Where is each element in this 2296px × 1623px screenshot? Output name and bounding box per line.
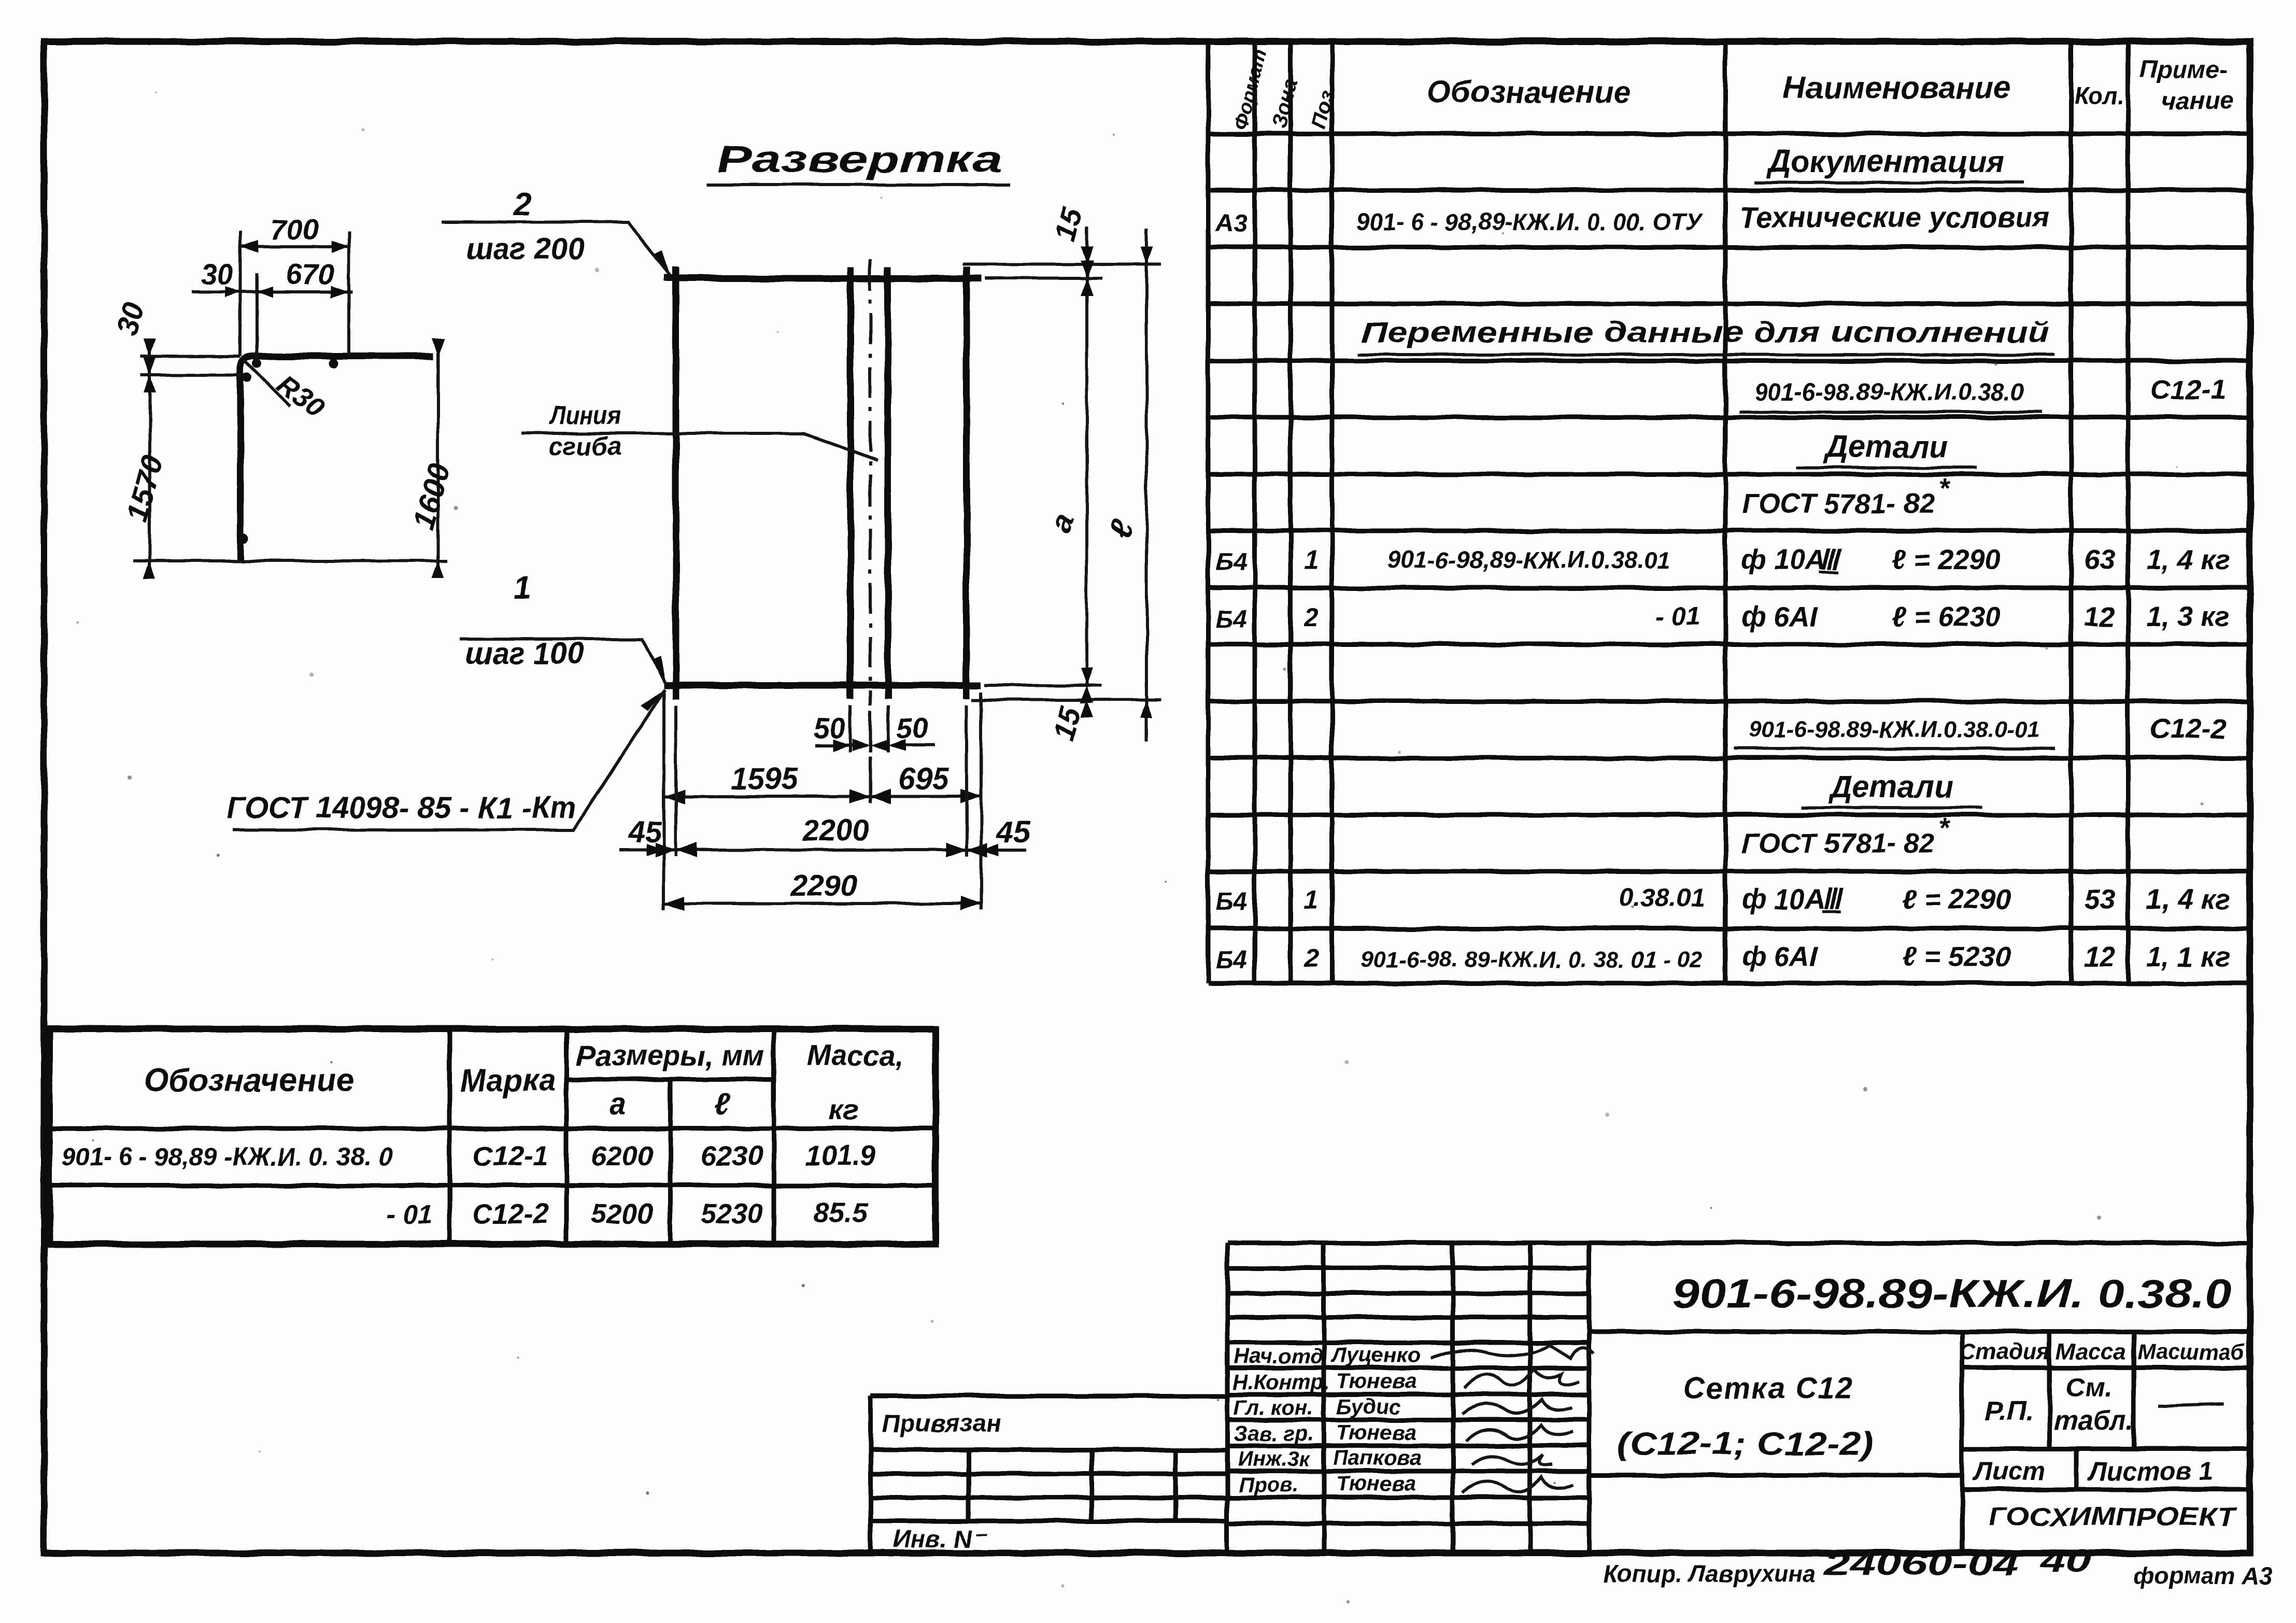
svg-text:- 01: - 01 [1655,602,1700,631]
bottom annotations [1604,1543,2273,1589]
svg-text:Тюнева: Тюнева [1336,1472,1416,1495]
svg-text:Наименование: Наименование [1783,70,2010,105]
svg-text:Копир. Лаврухина: Копир. Лаврухина [1604,1560,1816,1587]
svg-text:1: 1 [1304,885,1319,914]
svg-text:С12-1: С12-1 [2150,374,2226,405]
svg-text:ГОСТ 5781- 82: ГОСТ 5781- 82 [1741,488,1935,519]
svg-text:Б4: Б4 [1216,888,1248,915]
svg-text:Луценко: Луценко [1330,1343,1420,1367]
стадия масса масштаб [1962,1332,2250,1489]
svg-text:901- 6 - 98,89-КЖ.И. 0. 00. ОТ: 901- 6 - 98,89-КЖ.И. 0. 00. ОТУ [1356,208,1704,235]
svg-text:1, 3 кг: 1, 3 кг [2146,601,2230,632]
svg-text:2: 2 [1303,944,1319,973]
svg-text:30: 30 [201,258,233,290]
mesh transverse bar bottom [664,682,981,689]
spec table row texts [1215,144,2230,974]
svg-text:Линия: Линия [548,401,621,430]
main title area [1589,1243,2250,1553]
dim 30 / 670 [256,273,259,363]
svg-text:ф 10А: ф 10А [1741,544,1825,575]
top leg [240,356,433,562]
svg-text:901-6-98. 89-КЖ.И. 0. 38. 01 -: 901-6-98. 89-КЖ.И. 0. 38. 01 - 02 [1360,947,1703,972]
svg-text:Масса: Масса [2056,1339,2126,1364]
svg-text:12: 12 [2084,601,2115,632]
svg-text:формат А3: формат А3 [2134,1562,2273,1589]
svg-text:Пров.: Пров. [1239,1473,1299,1497]
svg-text:Лист: Лист [1973,1457,2045,1486]
development drawing (Развертка) [227,139,1161,911]
svg-text:1595: 1595 [731,762,798,796]
svg-text:ГОСТ 14098- 85 - К1 -Кт: ГОСТ 14098- 85 - К1 -Кт [227,791,577,825]
svg-text:ℓ = 6230: ℓ = 6230 [1892,601,2001,632]
svg-text:40: 40 [2040,1543,2091,1579]
svg-text:2200: 2200 [801,814,869,848]
dim 1600 [436,345,440,570]
label 1 / шаг 100 with leader [460,570,665,683]
svg-text:А3: А3 [1215,210,1248,237]
svg-text:ГОСТ 5781- 82: ГОСТ 5781- 82 [1741,828,1935,859]
signature table [1227,1243,1589,1553]
svg-text:Размеры, мм: Размеры, мм [576,1039,765,1071]
svg-text:2290: 2290 [790,869,857,902]
svg-text:1, 1 кг: 1, 1 кг [2146,941,2230,972]
svg-text:Развертка: Развертка [717,139,1002,180]
label ГОСТ 14098-85-К1-Кт with leader [227,689,665,830]
svg-text:901-6-98.89-КЖ.И.0.38.0-01: 901-6-98.89-КЖ.И.0.38.0-01 [1749,717,2040,742]
svg-text:Масса,: Масса, [806,1039,903,1071]
svg-text:Обозначение: Обозначение [144,1063,354,1098]
svg-text:695: 695 [899,762,949,796]
svg-text:Б4: Б4 [1216,605,1248,633]
material table (bottom left) [49,1029,936,1244]
svg-text:Ⅲ: Ⅲ [1819,544,1841,575]
svg-text:Р.П.: Р.П. [1985,1396,2033,1427]
svg-text:- 01: - 01 [386,1199,433,1230]
svg-text:5200: 5200 [591,1198,653,1230]
svg-text:2: 2 [1303,603,1319,632]
svg-text:Документация: Документация [1766,144,2005,179]
longitudinal wire right [963,267,970,699]
svg-text:Детали: Детали [1827,769,1953,804]
svg-text:Листов 1: Листов 1 [2088,1457,2213,1486]
right side dims 15 / a / e [962,204,1161,744]
label 2 / шаг 200 with leader [441,187,670,276]
svg-text:Инв. N⁻: Инв. N⁻ [892,1526,988,1553]
svg-text:шаг 100: шаг 100 [465,637,584,670]
привязан box + lower table [871,1396,1227,1553]
svg-text:12: 12 [2084,941,2115,972]
svg-text:Обозначение: Обозначение [1427,75,1631,109]
svg-text:ℓ = 2290: ℓ = 2290 [1892,544,2001,575]
dim 45 / 2200 / 45 [619,705,1030,857]
svg-text:Н.Контр.: Н.Контр. [1232,1370,1329,1394]
svg-text:Папкова: Папкова [1333,1446,1421,1470]
svg-text:Технические условия: Технические условия [1739,201,2049,233]
signatures squiggles [1430,1345,1594,1493]
longitudinal wire mid-right of fold [885,267,891,699]
svg-text:1, 4 кг: 1, 4 кг [2146,544,2230,575]
svg-text:901-6-98.89-КЖ.И. 0.38.0: 901-6-98.89-КЖ.И. 0.38.0 [1673,1271,2232,1316]
svg-text:ℓ = 5230: ℓ = 5230 [1902,941,2011,972]
label Линия сгиба with leader [521,401,877,461]
svg-text:ф 6АΙ: ф 6АΙ [1741,941,1818,972]
svg-text:Детали: Детали [1822,429,1948,464]
svg-text:шаг 200: шаг 200 [466,232,585,266]
svg-text:45: 45 [996,815,1030,849]
svg-text:670: 670 [286,258,334,290]
svg-text:700: 700 [270,213,318,246]
R30 leader [245,360,290,406]
svg-text:24060-04: 24060-04 [1824,1546,2019,1582]
svg-text:63: 63 [2084,544,2115,575]
longitudinal wire left [673,267,679,699]
svg-text:1: 1 [514,570,531,606]
svg-text:Б4: Б4 [1216,548,1248,576]
svg-text:6200: 6200 [591,1140,653,1172]
spec table grid [1208,43,2250,983]
svg-text:5230: 5230 [701,1198,763,1230]
longitudinal wire mid-left of fold [847,267,854,699]
spec table header texts [1230,47,2234,132]
svg-text:ГОСХИМПРОЕКТ: ГОСХИМПРОЕКТ [1989,1502,2237,1531]
svg-text:Стадия: Стадия [1959,1339,2050,1364]
svg-text:Тюнева: Тюнева [1336,1369,1416,1393]
svg-text:Б4: Б4 [1216,947,1248,974]
fold line (dash-dot) [869,259,872,705]
svg-text:901- 6 - 98,89 -КЖ.И. 0. 38. 0: 901- 6 - 98,89 -КЖ.И. 0. 38. 0 [62,1144,392,1171]
svg-text:табл.: табл. [2054,1406,2133,1436]
svg-text:Инж.3к: Инж.3к [1238,1447,1311,1471]
svg-text:101.9: 101.9 [805,1140,875,1172]
wire dots [252,359,262,368]
svg-text:Переменные данные для испол: Переменные данные для исполнений [1361,316,2050,348]
svg-text:ℓ: ℓ [714,1088,730,1121]
left dims 30 / 1570 [133,356,447,561]
svg-text:Приме-: Приме- [2139,56,2228,83]
dim 2290 [664,869,981,911]
svg-text:С12-2: С12-2 [472,1198,548,1230]
svg-text:85.5: 85.5 [813,1197,868,1229]
svg-text:Привязан: Привязан [882,1410,1001,1437]
svg-text:Ⅲ: Ⅲ [1822,884,1844,915]
svg-text:Сетка С12: Сетка С12 [1683,1372,1854,1405]
svg-text:Нач.отд: Нач.отд [1234,1344,1323,1368]
svg-text:чание: чание [2161,87,2234,115]
svg-text:ф 10А: ф 10А [1741,884,1825,915]
svg-text:ф 6АΙ: ф 6АΙ [1741,601,1818,632]
svg-text:(С12-1; С12-2): (С12-1; С12-2) [1617,1426,1874,1462]
svg-text:Будис: Будис [1336,1394,1401,1418]
dim 50/50 under mesh [814,705,934,753]
svg-text:а: а [610,1088,627,1121]
corner detail (top left) [110,213,457,578]
svg-text:50: 50 [896,712,928,744]
svg-text:53: 53 [2084,884,2115,915]
svg-text:Тюнева: Тюнева [1336,1420,1416,1444]
svg-text:См.: См. [2065,1373,2112,1403]
dim 1595 / 695 [664,692,981,910]
svg-text:Масштаб: Масштаб [2137,1339,2245,1364]
svg-text:50: 50 [814,712,846,744]
svg-text:901-6-98,89-КЖ.И.0.38.01: 901-6-98,89-КЖ.И.0.38.01 [1387,546,1670,573]
svg-text:сгиба: сгиба [549,432,621,461]
svg-text:Марка: Марка [460,1063,556,1098]
svg-text:901-6-98.89-КЖ.И.0.38.0: 901-6-98.89-КЖ.И.0.38.0 [1754,378,2024,405]
svg-text:Гл. кон.: Гл. кон. [1234,1395,1313,1419]
svg-text:кг: кг [829,1093,859,1126]
svg-text:Кол.: Кол. [2074,82,2124,109]
svg-text:*: * [1938,812,1951,843]
svg-text:С12-1: С12-1 [472,1140,548,1172]
svg-text:Зав. гр.: Зав. гр. [1234,1421,1314,1445]
svg-text:С12-2: С12-2 [2150,713,2226,744]
svg-text:ℓ = 2290: ℓ = 2290 [1902,884,2011,915]
svg-text:1, 4 кг: 1, 4 кг [2146,884,2230,915]
svg-text:1: 1 [1304,546,1319,575]
mesh transverse bar top [664,275,981,282]
svg-text:6230: 6230 [701,1140,763,1172]
svg-text:*: * [1938,473,1951,504]
dim 700 [240,232,349,356]
title block [871,1243,2250,1553]
svg-text:2: 2 [513,187,531,222]
